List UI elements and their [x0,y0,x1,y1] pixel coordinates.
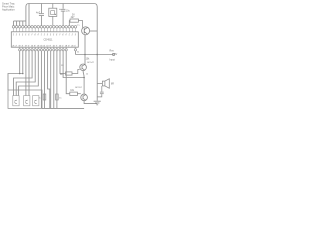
wire pin p15 to R2 [60,51,66,74]
resistor R2 [66,70,80,76]
junction dot bus73 a [19,73,21,75]
resonator X1 box [49,4,57,26]
svg-text:BC557: BC557 [75,87,82,89]
svg-text:8: 8 [62,35,63,37]
svg-text:5k: 5k [77,52,80,54]
pin circles bottom row [19,49,77,51]
transistor Q2 [80,64,87,71]
display module box [8,90,42,108]
svg-text:9: 9 [38,35,39,37]
wire rail drop pin6 [28,4,30,26]
pin circles top row [12,26,77,29]
transistor Q1 [82,27,90,35]
svg-text:10u: 10u [66,11,71,13]
wire pin p6 staircase [14,51,33,96]
svg-text:Application: Application [2,8,15,12]
resistor R4 vertical [43,94,46,100]
wire Q1 emitter down to Q2 [84,35,86,65]
wire pin p4 straight to display [25,51,27,96]
svg-text:6: 6 [28,35,29,37]
pin number marks bottom [12,45,76,47]
svg-text:4k7: 4k7 [60,74,64,76]
wire bus73 to display [8,74,23,91]
digit 1 box [13,96,19,106]
resistor R1 [69,19,82,28]
svg-text:4: 4 [50,35,51,37]
capacitor C2 [61,4,66,26]
svg-text:Input: Input [110,58,116,61]
wire pin p7 staircase [16,51,35,96]
plus mark C2 [59,9,60,10]
title text block [2,2,15,12]
wire pin p20 to input line [75,51,77,55]
svg-text:2: 2 [72,35,73,37]
pin number ticks top [14,33,76,34]
digit 3 box [33,96,39,106]
svg-text:BC547: BC547 [87,62,94,64]
resistor R5 vertical [56,94,59,100]
svg-text:4n7: 4n7 [36,11,41,14]
svg-text:0-5V: 0-5V [112,53,117,56]
svg-text:2: 2 [16,35,17,37]
svg-text:3: 3 [47,35,48,37]
wire pin p16 to emitter bus [63,51,84,78]
svg-text:5: 5 [25,35,26,37]
svg-text:8R: 8R [111,84,114,86]
wire bus drop pin2 [16,21,18,26]
svg-text:1: 1 [13,35,14,37]
svg-text:7: 7 [59,35,60,37]
transistor Q3 [81,94,88,101]
label input terminal [110,50,118,62]
wire pin p8 staircase [19,51,39,96]
IC U1 [11,32,78,47]
wire bus drop pin3 [19,21,21,26]
junction dot input-rail [96,54,98,56]
wire pin p9 to rail [40,51,42,109]
svg-text:4: 4 [22,35,23,37]
wire bottom rail [42,107,84,109]
svg-text:1: 1 [69,35,70,37]
speaker LS1 [97,79,109,88]
resistor R3 [70,92,81,95]
capacitor C3 [97,86,104,97]
svg-text:8: 8 [34,35,35,37]
wire Q3 emitter to ground [84,101,97,104]
wire pin p13 to rail [53,51,55,109]
wire bus drop pin1 [13,21,15,26]
pin stubs circles to IC top [14,28,76,32]
svg-text:R9: R9 [61,65,64,67]
svg-text:1k: 1k [59,98,62,100]
terminal input [113,53,115,55]
svg-text:1: 1 [41,35,42,37]
wire bus above IC [14,20,26,22]
svg-text:9: 9 [65,35,66,37]
svg-text:4k7: 4k7 [71,16,76,19]
svg-text:5: 5 [53,35,54,37]
wire pin p2 to bus73 [19,51,21,74]
wire input line [76,54,113,56]
svg-text:3: 3 [19,35,20,37]
svg-text:7: 7 [31,35,32,37]
wire Q1 collector to right rail [90,30,98,32]
wire pin p17 to R3 [66,51,70,94]
wire supply rail top [26,4,97,101]
svg-text:3: 3 [75,35,76,37]
junction dot emitter bus [83,77,85,79]
wire pin p11 to rail jog [48,51,50,109]
svg-text:10k: 10k [86,58,91,60]
wire pin p3 to bus73 [22,51,24,74]
svg-text:CD4511: CD4511 [44,39,54,42]
svg-text:6: 6 [56,35,57,37]
pin stubs IC bottom to circles [20,47,76,49]
wire Q2 emitter down to Q3 [83,71,84,95]
pin number marks top [13,35,76,37]
svg-text:2: 2 [44,35,45,37]
svg-text:T1: T1 [77,25,80,27]
wire pin p5 straight to display [28,51,30,96]
ground [94,101,101,105]
wire pin p12 to rail [50,51,52,109]
wire pin p14 to rail [56,51,58,109]
pin number ticks bottom [14,45,76,46]
junction dot bus73 b [22,73,24,75]
wire bus drop pin4 [22,21,24,26]
wire pin p10 to rail [44,51,46,109]
digit 2 box [24,96,30,106]
capacitor C1 [39,4,44,26]
svg-text:1k: 1k [86,73,89,75]
junction dot input-Q1 [84,54,86,56]
